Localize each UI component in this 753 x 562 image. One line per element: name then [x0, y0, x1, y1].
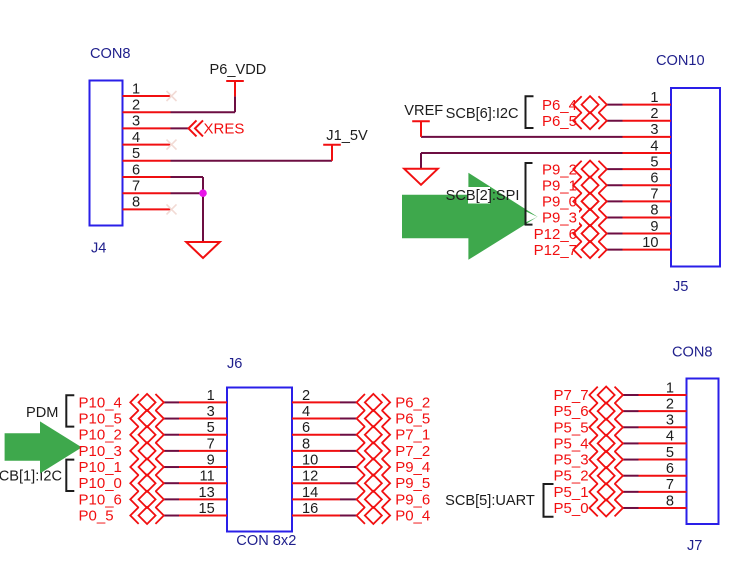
svg-text:10: 10	[302, 453, 318, 469]
svg-text:2: 2	[132, 98, 140, 114]
svg-text:P9_5: P9_5	[395, 475, 430, 492]
svg-text:7: 7	[132, 179, 140, 195]
svg-text:8: 8	[132, 195, 140, 211]
svg-text:P9_2: P9_2	[542, 161, 577, 178]
svg-text:P10_5: P10_5	[79, 411, 122, 428]
svg-text:7: 7	[650, 187, 658, 203]
svg-text:13: 13	[198, 485, 214, 501]
svg-text:1: 1	[666, 380, 674, 396]
svg-text:7: 7	[666, 477, 674, 493]
svg-text:J4: J4	[91, 241, 106, 257]
svg-text:11: 11	[200, 469, 215, 485]
svg-text:15: 15	[198, 501, 214, 517]
svg-text:J6: J6	[227, 356, 242, 372]
svg-text:P7_2: P7_2	[395, 443, 430, 460]
svg-text:9: 9	[207, 453, 215, 469]
svg-text:5: 5	[650, 154, 658, 170]
svg-text:P10_0: P10_0	[79, 475, 122, 492]
svg-text:1: 1	[132, 81, 140, 97]
svg-text:7: 7	[207, 436, 215, 452]
svg-text:6: 6	[666, 461, 674, 477]
svg-text:3: 3	[650, 122, 658, 138]
svg-text:6: 6	[650, 171, 658, 187]
svg-text:P12_7: P12_7	[534, 242, 577, 259]
svg-text:PDM: PDM	[26, 405, 58, 421]
svg-text:J5: J5	[673, 279, 688, 295]
svg-text:6: 6	[302, 420, 310, 436]
svg-text:P6_VDD: P6_VDD	[210, 62, 267, 78]
svg-text:P9_0: P9_0	[542, 194, 577, 211]
svg-text:P6_2: P6_2	[395, 394, 430, 411]
svg-text:P7_1: P7_1	[395, 427, 430, 444]
svg-text:P10_1: P10_1	[79, 459, 122, 476]
svg-text:10: 10	[642, 235, 658, 251]
svg-text:P10_6: P10_6	[79, 491, 122, 508]
svg-text:P9_1: P9_1	[542, 178, 577, 195]
svg-text:SCB[2]:SPI: SCB[2]:SPI	[446, 188, 520, 204]
svg-text:6: 6	[132, 162, 140, 178]
svg-text:P6_5: P6_5	[542, 113, 577, 130]
svg-text:5: 5	[132, 146, 140, 162]
svg-text:P5_4: P5_4	[554, 435, 589, 452]
svg-text:5: 5	[207, 420, 215, 436]
svg-text:XRES: XRES	[204, 121, 245, 138]
svg-text:2: 2	[666, 396, 674, 412]
svg-text:P0_5: P0_5	[79, 508, 114, 525]
svg-text:SCB[6]:I2C: SCB[6]:I2C	[446, 106, 519, 122]
svg-text:P5_1: P5_1	[554, 484, 589, 501]
svg-text:P9_6: P9_6	[395, 491, 430, 508]
svg-text:2: 2	[302, 388, 310, 404]
svg-text:P5_3: P5_3	[554, 452, 589, 469]
svg-text:P5_6: P5_6	[554, 403, 589, 420]
svg-text:3: 3	[207, 404, 215, 420]
svg-text:P9_3: P9_3	[542, 210, 577, 227]
svg-text:9: 9	[650, 219, 658, 235]
svg-text:1: 1	[650, 90, 658, 106]
svg-text:3: 3	[666, 413, 674, 429]
svg-text:2: 2	[650, 106, 658, 122]
svg-text:1: 1	[207, 388, 215, 404]
svg-text:SCB[5]:UART: SCB[5]:UART	[445, 493, 535, 509]
svg-text:8: 8	[650, 203, 658, 219]
svg-text:CON8: CON8	[90, 46, 131, 62]
svg-text:P10_4: P10_4	[79, 394, 122, 411]
svg-text:5: 5	[666, 445, 674, 461]
svg-text:12: 12	[302, 469, 318, 485]
svg-text:4: 4	[650, 138, 658, 154]
svg-text:SCB[1]:I2C: SCB[1]:I2C	[0, 469, 62, 485]
svg-text:P5_2: P5_2	[554, 468, 589, 485]
svg-text:P7_7: P7_7	[554, 387, 589, 404]
svg-text:8: 8	[666, 493, 674, 509]
svg-text:P9_4: P9_4	[395, 459, 430, 476]
svg-text:14: 14	[302, 485, 318, 501]
svg-text:4: 4	[302, 404, 310, 420]
svg-text:P10_3: P10_3	[79, 443, 122, 460]
svg-text:8: 8	[302, 436, 310, 452]
svg-text:4: 4	[132, 130, 140, 146]
svg-text:P5_5: P5_5	[554, 419, 589, 436]
svg-text:P6_5: P6_5	[395, 411, 430, 428]
svg-text:P12_6: P12_6	[534, 226, 577, 243]
svg-text:3: 3	[132, 114, 140, 130]
svg-text:CON10: CON10	[656, 53, 705, 69]
svg-text:P6_4: P6_4	[542, 97, 577, 114]
svg-text:CON8: CON8	[672, 345, 713, 361]
svg-text:J1_5V: J1_5V	[326, 128, 368, 144]
svg-text:J7: J7	[687, 538, 702, 554]
svg-text:16: 16	[302, 501, 318, 517]
svg-text:VREF: VREF	[404, 103, 443, 119]
svg-text:4: 4	[666, 429, 674, 445]
svg-text:P5_0: P5_0	[554, 500, 589, 517]
svg-text:P10_2: P10_2	[79, 427, 122, 444]
svg-text:CON 8x2: CON 8x2	[236, 533, 296, 549]
svg-text:P0_4: P0_4	[395, 508, 430, 525]
